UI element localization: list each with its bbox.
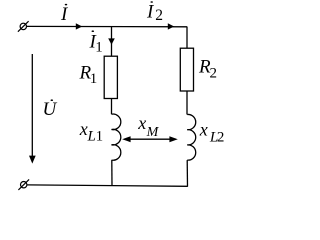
svg-text:2: 2 bbox=[210, 66, 218, 82]
wire right branch lower bbox=[186, 160, 188, 186]
arrow current I2 (right) bbox=[168, 23, 174, 29]
label U dot bbox=[51, 99, 54, 101]
wire between R1 and coil bbox=[111, 99, 113, 115]
resistor R2 bbox=[180, 48, 193, 91]
terminal top-left bbox=[18, 21, 29, 32]
wire top horizontal bbox=[27, 25, 188, 27]
voltage arrow U (down) bbox=[29, 54, 36, 164]
svg-text:x: x bbox=[137, 113, 146, 133]
svg-text:1: 1 bbox=[90, 71, 98, 87]
label I2 dot bbox=[150, 1, 153, 3]
svg-text:x: x bbox=[79, 119, 88, 139]
inductor xL1 coil bbox=[112, 114, 121, 160]
terminal bottom-left bbox=[18, 179, 29, 190]
arrow current I1 (down) bbox=[108, 38, 115, 44]
svg-text:2: 2 bbox=[155, 7, 163, 24]
arrow current I (right) bbox=[76, 23, 82, 29]
svg-text:L: L bbox=[87, 129, 96, 145]
wire between R2 and coil bbox=[186, 91, 188, 115]
svg-text:1: 1 bbox=[96, 129, 104, 145]
label I1 dot bbox=[92, 30, 95, 32]
svg-text:2: 2 bbox=[217, 130, 225, 146]
wire middle branch lower bbox=[111, 160, 113, 186]
wire bottom horizontal bbox=[27, 185, 188, 186]
resistor R1 bbox=[104, 56, 117, 98]
inductor xL2 coil bbox=[187, 114, 196, 160]
svg-text:x: x bbox=[199, 120, 208, 140]
mutual coupling arrow xM (double-headed) bbox=[122, 136, 178, 142]
wire middle branch upper bbox=[111, 27, 113, 57]
svg-text:U: U bbox=[43, 99, 58, 120]
svg-text:1: 1 bbox=[95, 39, 103, 55]
svg-text:M: M bbox=[146, 125, 160, 140]
label I dot bbox=[65, 4, 68, 6]
wire right branch upper bbox=[186, 27, 188, 49]
